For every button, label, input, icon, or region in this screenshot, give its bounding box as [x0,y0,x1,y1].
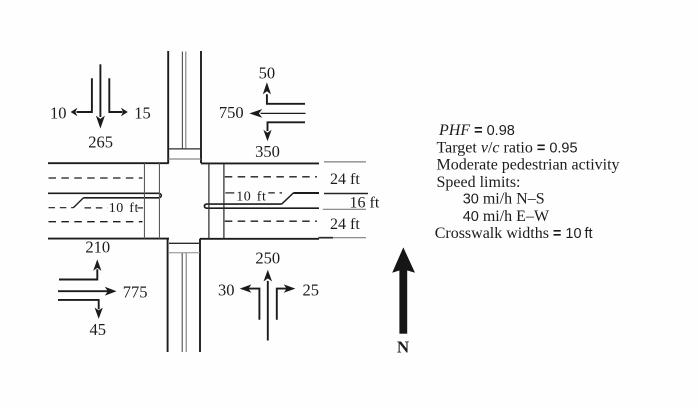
north arrow: head [392,247,415,272]
arrowhead: WB through left [249,109,262,118]
centerline: N-S south double line left [181,253,183,352]
arrow: WB through (volume 750) shaft [261,112,306,114]
svg-text:10 ft: 10 ft [236,189,266,204]
svg-text:15: 15 [134,103,151,122]
crosswalk line: east approach right vertical [223,163,225,238]
centerline: N-S north double line left [181,52,183,149]
arrow: NB right-turn (volume 25) polyline [277,289,290,320]
lane line: east segment lower dashed [225,220,317,222]
centerline dashes: west approach right of taper [85,207,108,209]
road edge: N-S road south segment west edge [167,239,169,352]
north arrow: shaft [399,267,407,334]
arrow: NB through (volume 250) shaft [267,281,269,341]
crosswalk line: north approach lower [168,158,201,160]
svg-text:Moderate pedestrian activity: Moderate pedestrian activity [437,156,620,173]
crosswalk line: east approach left vertical [208,163,210,238]
arrow: SB left-turn (volume 10) polyline [77,78,92,112]
arrowhead: EB through right [105,287,117,296]
median island: west approach nose (two lines and rounded cap) [48,193,161,198]
svg-text:Target v/c ratio = 0.95: Target v/c ratio = 0.95 [437,139,578,156]
arrow: EB right-turn? up branch (volume 210) polyline [59,269,97,279]
svg-text:210: 210 [85,237,110,256]
centerline: N-S north double line right [185,52,187,149]
svg-text:30 mi/h N–S: 30 mi/h N–S [463,191,545,208]
arrow: SB right-turn (volume 15) polyline [109,78,122,112]
median line: east approach solid to road end [293,192,319,194]
svg-text:350: 350 [255,142,280,161]
arrow: EB through (volume 775) shaft [58,290,110,292]
svg-text:250: 250 [255,248,280,267]
svg-text:50: 50 [259,63,276,82]
dimension line: bottom edge extension dark part [319,237,334,239]
centerline: N-S south double line right [185,253,187,352]
dimension line: top edge extension [324,161,366,163]
arrowhead: NB right-turn right [284,284,296,292]
road edge: E-W road west segment top edge [48,162,169,164]
svg-text:775: 775 [123,282,148,301]
crosswalk line: south approach upper [169,242,200,244]
crosswalk line: south approach lower [169,252,200,254]
svg-text:45: 45 [90,320,107,339]
arrowhead: NB left-turn left [240,284,252,292]
dimension line: bottom edge extension light part [333,237,366,239]
arrow: EB left-turn down branch (volume 45) polyline [58,300,99,309]
arrow: WB left-turn (volume 350) polyline [268,122,306,131]
lane line: west segment upper dashed [49,177,143,179]
svg-text:25: 25 [303,281,320,300]
centerline dashes: west approach left of taper [49,207,74,209]
arrowhead: EB up branch [93,259,101,270]
arrow: WB right-turn (volume 50) polyline [267,94,305,104]
svg-text:10 ft: 10 ft [109,201,139,216]
svg-text:40 mi/h E–W: 40 mi/h E–W [463,208,550,225]
arrowhead: SB through down [96,116,105,129]
road edge: E-W road west segment bottom edge [48,238,169,240]
road edge: N-S road north segment west edge [167,51,169,163]
svg-text:16 ft: 16 ft [350,194,380,211]
arrowhead: EB down branch [95,308,103,319]
lane line: east segment upper dashed [225,176,317,178]
arrowhead: SB left-turn left [71,108,78,116]
arrowhead: WB left-turn down [263,130,271,142]
svg-text:24 ft: 24 ft [330,171,360,188]
arrowhead: WB right-turn up [263,82,271,94]
svg-text:10: 10 [50,103,67,122]
median taper: east approach [282,193,294,204]
arrowhead: NB through up [264,270,273,282]
svg-text:Crosswalk widths = 10 ft: Crosswalk widths = 10 ft [435,225,593,242]
centerline dashes: east approach right of label [268,192,282,194]
median island: east approach nose (two lines and rounded cap) [204,204,319,208]
median taper: west approach [73,198,83,208]
svg-text:24 ft: 24 ft [330,216,360,233]
arrow: SB through (volume 265) shaft [99,64,101,117]
crosswalk line: west approach right vertical [158,163,160,238]
centerline dash: west approach before crosswalk [138,207,144,209]
crosswalk line: west approach left vertical [143,163,145,238]
dimension line: median bottom extension [323,208,366,210]
arrowhead: SB right-turn right [121,108,128,116]
road edge: N-S road north segment east edge [200,51,202,163]
lane line: west segment lower dashed [49,221,143,223]
svg-text:PHF = 0.98: PHF = 0.98 [438,122,515,139]
svg-text:750: 750 [219,103,244,122]
road edge: E-W road east segment bottom edge [200,238,319,240]
svg-text:265: 265 [88,132,113,151]
svg-text:N: N [397,337,410,356]
road edge: N-S road south segment east edge [199,239,201,352]
text block: conditions [435,122,620,242]
svg-text:Speed limits:: Speed limits: [437,174,521,191]
arrow: NB left-turn (volume 30) polyline [245,289,259,320]
crosswalk line: north approach upper [168,148,201,150]
svg-text:30: 30 [218,281,235,300]
centerline dash: east approach after crosswalk [225,192,234,194]
road edge: E-W road east segment top edge [201,162,319,164]
dimension line: median top extension (dark) [324,193,368,195]
